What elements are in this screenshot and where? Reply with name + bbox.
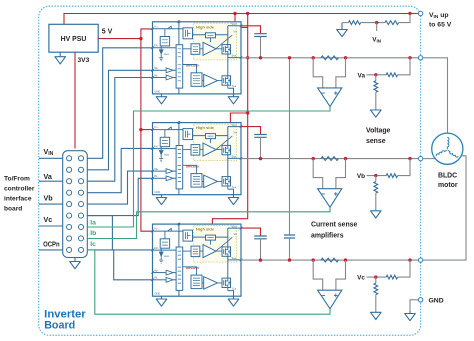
wire divider corner A — [398, 58, 410, 75]
wire bootstrap cap B bottom — [260, 137, 262, 158]
svg-text:3V3: 3V3 — [78, 57, 90, 64]
wire VIN divider right — [399, 14, 410, 23]
wire INL U1 — [87, 78, 152, 182]
wire OCPn to connector — [39, 249, 63, 251]
op-amp B signs — [322, 192, 338, 196]
node VIN bus top — [246, 12, 249, 15]
resistor divider bottom RA2 — [374, 81, 378, 93]
capacitor CX — [284, 235, 295, 238]
ground (divider C) — [371, 312, 382, 319]
wire INH U1 — [87, 70, 152, 170]
motor winding left — [447, 150, 458, 157]
wire divider gnd C — [375, 295, 377, 313]
resistor VIN divider R2 — [385, 21, 399, 25]
wire VIN divider mid — [361, 22, 385, 24]
wire VIN divider left — [342, 22, 348, 24]
wire divider A — [367, 74, 387, 76]
svg-text:Vc: Vc — [357, 275, 365, 282]
gate driver U3 — [151, 223, 242, 297]
wire sense tap left A — [313, 58, 323, 88]
wire EN U2 — [87, 148, 152, 192]
wire bootstrap cap C top — [241, 228, 261, 236]
svg-text:Board: Board — [44, 320, 75, 332]
wire divider gnd B — [375, 193, 377, 211]
wire VIN drop to U1 — [234, 14, 236, 22]
inverter board dashed outline — [39, 6, 421, 335]
wire INL U2 — [87, 178, 152, 215]
wire divider B — [367, 175, 387, 177]
node VIN bus U2 feed — [246, 111, 249, 114]
wire phase B row — [241, 158, 418, 160]
op-amp current sense A — [318, 88, 342, 107]
node phase C exits border — [418, 258, 422, 262]
node VCC rail to U2 — [139, 128, 142, 131]
node divider mid B — [374, 174, 377, 177]
wire phase C row — [241, 259, 418, 261]
svg-text:Vc: Vc — [44, 215, 53, 224]
wire sense tap right B — [336, 159, 346, 189]
wire VIN vertical bus right of U1 — [212, 14, 247, 225]
wire phase B to motor — [423, 158, 438, 160]
wire divider corner B — [398, 159, 410, 176]
node divider top C — [408, 258, 411, 261]
wire Ia — [87, 107, 330, 227]
ground (VIN divider) — [337, 23, 348, 37]
svg-text:HV PSU: HV PSU — [61, 36, 87, 43]
wire sense tap left C — [313, 260, 323, 290]
svg-text:GND: GND — [429, 298, 444, 305]
wire EN U3 — [87, 216, 152, 250]
resistor divider bottom RB2 — [374, 182, 378, 194]
ground (U3 right) — [228, 296, 239, 306]
resistor divider top RA1 — [386, 73, 397, 77]
wire divider gnd A — [375, 92, 377, 110]
ground (board GND) — [405, 311, 416, 321]
node VIN bus phase A row — [246, 56, 249, 59]
wire divider down C — [375, 277, 377, 283]
node divider mid C — [374, 275, 377, 278]
wire divider down B — [375, 176, 377, 182]
node phase A exits border — [418, 56, 422, 60]
wire U1 drain stub — [241, 27, 248, 29]
node shunt right A — [344, 56, 347, 59]
node VIN divider tap on bus — [408, 12, 411, 15]
node VIN exits border — [418, 11, 422, 15]
gate driver U1 — [151, 20, 242, 93]
capacitor bootstrap CB — [254, 135, 267, 138]
wire phase A to motor — [423, 58, 448, 133]
node X-cap top — [288, 56, 291, 59]
wire divider down A — [375, 75, 377, 81]
resistor divider top RB1 — [386, 174, 397, 178]
ground (divider A) — [371, 110, 382, 117]
ground (U1 left) — [156, 94, 167, 104]
wire divider C — [367, 276, 387, 278]
svg-text:5 V: 5 V — [102, 28, 113, 35]
wire OCPn to U3 — [87, 250, 152, 280]
node 5V rail junction — [139, 37, 142, 40]
resistor shunt RA — [321, 56, 339, 60]
svg-text:Va: Va — [44, 172, 53, 181]
wire sense tap left B — [313, 159, 323, 189]
wire bootstrap cap A top — [241, 26, 261, 34]
node GND exits border — [418, 298, 422, 302]
HV PSU box — [49, 24, 98, 52]
node phase B exits border — [418, 156, 422, 160]
node X-cap bottom — [288, 258, 291, 261]
capacitor bootstrap CA — [254, 34, 267, 37]
wire bootstrap cap A bottom — [260, 37, 262, 58]
wire VIN feed to U2 — [230, 113, 247, 123]
node VIN drop U1 — [233, 12, 236, 15]
svg-text:VIN: VIN — [372, 37, 382, 44]
ground (connector) — [70, 258, 81, 269]
wire GND stub — [410, 300, 418, 311]
node shunt right B — [344, 157, 347, 160]
wire VCC rail down — [141, 39, 153, 232]
node bootstrap B — [259, 157, 262, 160]
resistor divider bottom RC2 — [374, 283, 378, 295]
wire Ic — [87, 250, 330, 314]
wire VCC stub to U2 — [141, 129, 153, 131]
ground (divider B) — [371, 211, 382, 218]
wire divider corner C — [398, 260, 410, 277]
resistor shunt RB — [321, 157, 339, 161]
ground (HV PSU) — [55, 52, 66, 64]
node shunt right C — [344, 258, 347, 261]
op-amp A signs — [322, 91, 338, 95]
wire VIN to connector — [39, 157, 63, 159]
svg-text:Ic: Ic — [90, 241, 96, 248]
resistor VIN divider R1 — [348, 21, 360, 25]
ground (U3 left) — [156, 296, 167, 306]
svg-text:Vb: Vb — [357, 173, 365, 180]
motor winding right — [436, 149, 447, 156]
op-amp current sense B — [318, 189, 342, 208]
wire 5V (PSU to VCC rail) — [98, 29, 152, 39]
node divider mid A — [374, 73, 377, 76]
wire Va to connector — [39, 180, 63, 182]
op-amp current sense C — [318, 290, 342, 309]
capacitor bootstrap CC — [254, 236, 267, 239]
gate driver U2 — [151, 121, 242, 195]
node shunt left A — [312, 56, 315, 59]
wire Vb to connector — [39, 203, 63, 205]
wire sense tap right C — [336, 260, 346, 290]
node shunt left B — [312, 157, 315, 160]
ground (U2 right) — [228, 195, 239, 205]
svg-text:Ia: Ia — [90, 219, 96, 226]
wire Ib — [87, 207, 330, 238]
connector J1 pins — [67, 156, 84, 253]
node divider top B — [408, 157, 411, 160]
node shunt left C — [312, 258, 315, 261]
wire X-cap bottom — [289, 238, 291, 260]
wire Vc to connector — [39, 225, 63, 227]
svg-text:OCPn: OCPn — [43, 240, 60, 249]
wire 3V3 (PSU to connector) — [74, 52, 76, 148]
svg-text:Va: Va — [358, 72, 366, 79]
op-amp C signs — [322, 294, 338, 298]
wire VIN label stub — [376, 23, 378, 31]
wire bootstrap cap B top — [241, 127, 261, 135]
resistor divider top RC1 — [386, 275, 397, 279]
wire phase C to motor — [423, 156, 466, 260]
wire sense tap right A — [336, 58, 346, 88]
node VIN divider — [375, 21, 378, 24]
wire bootstrap cap C bottom — [260, 239, 262, 260]
motor winding top — [447, 137, 449, 149]
svg-text:Vb: Vb — [44, 193, 54, 202]
node divider top A — [408, 56, 411, 59]
svg-text:Ib: Ib — [90, 230, 96, 237]
node bootstrap A — [259, 56, 262, 59]
resistor shunt RC — [321, 258, 339, 262]
wire INH U2 — [87, 171, 152, 204]
wire X-cap vertical — [289, 58, 291, 235]
connector J1 body — [63, 151, 88, 258]
BLDC motor circle — [432, 133, 463, 164]
ground (U2 left) — [156, 195, 167, 205]
node bootstrap C — [259, 258, 262, 261]
wire phase A row — [241, 57, 418, 59]
wire VIN bus (PSU top to border) — [64, 14, 418, 25]
ground (U1 right) — [228, 94, 239, 104]
wire EN U1 — [87, 48, 152, 159]
